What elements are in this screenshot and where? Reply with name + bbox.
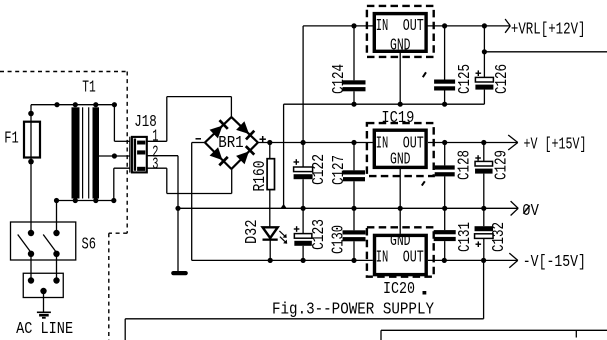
svg-text:+V [+15V]: +V [+15V] [524, 136, 587, 155]
svg-text:IN: IN [376, 134, 389, 153]
svg-text:OUT: OUT [403, 17, 424, 36]
svg-text:OUT: OUT [403, 248, 424, 267]
svg-text:R160: R160 [251, 161, 270, 192]
svg-text:D32: D32 [243, 220, 262, 245]
svg-text:T1: T1 [82, 79, 96, 98]
svg-text:C123: C123 [310, 219, 329, 250]
svg-text:C127: C127 [330, 155, 349, 185]
svg-text:C124: C124 [330, 64, 349, 94]
svg-text:S6: S6 [82, 236, 97, 255]
svg-text:C129: C129 [493, 150, 512, 180]
svg-text:IN: IN [376, 17, 389, 36]
svg-text:IN: IN [376, 248, 389, 267]
svg-text:C131: C131 [456, 222, 475, 252]
svg-text:-V[-15V]: -V[-15V] [523, 253, 586, 272]
svg-text:C122: C122 [310, 154, 329, 185]
svg-text:C126: C126 [493, 64, 512, 94]
svg-text:BR1: BR1 [218, 134, 244, 153]
svg-text:C130: C130 [329, 225, 348, 254]
svg-text:F1: F1 [4, 129, 19, 148]
svg-text:+VRL[+12V]: +VRL[+12V] [511, 21, 586, 40]
svg-text:C125: C125 [456, 64, 475, 94]
svg-text:Fig.3--POWER SUPPLY: Fig.3--POWER SUPPLY [272, 300, 434, 319]
svg-text:C128: C128 [456, 150, 475, 180]
svg-text:AC LINE: AC LINE [16, 320, 73, 339]
svg-text:GND: GND [390, 151, 411, 170]
svg-text:IC19: IC19 [381, 109, 414, 128]
svg-text:3: 3 [152, 155, 158, 174]
svg-text:IC20: IC20 [383, 280, 415, 299]
svg-text:C132: C132 [490, 222, 509, 252]
